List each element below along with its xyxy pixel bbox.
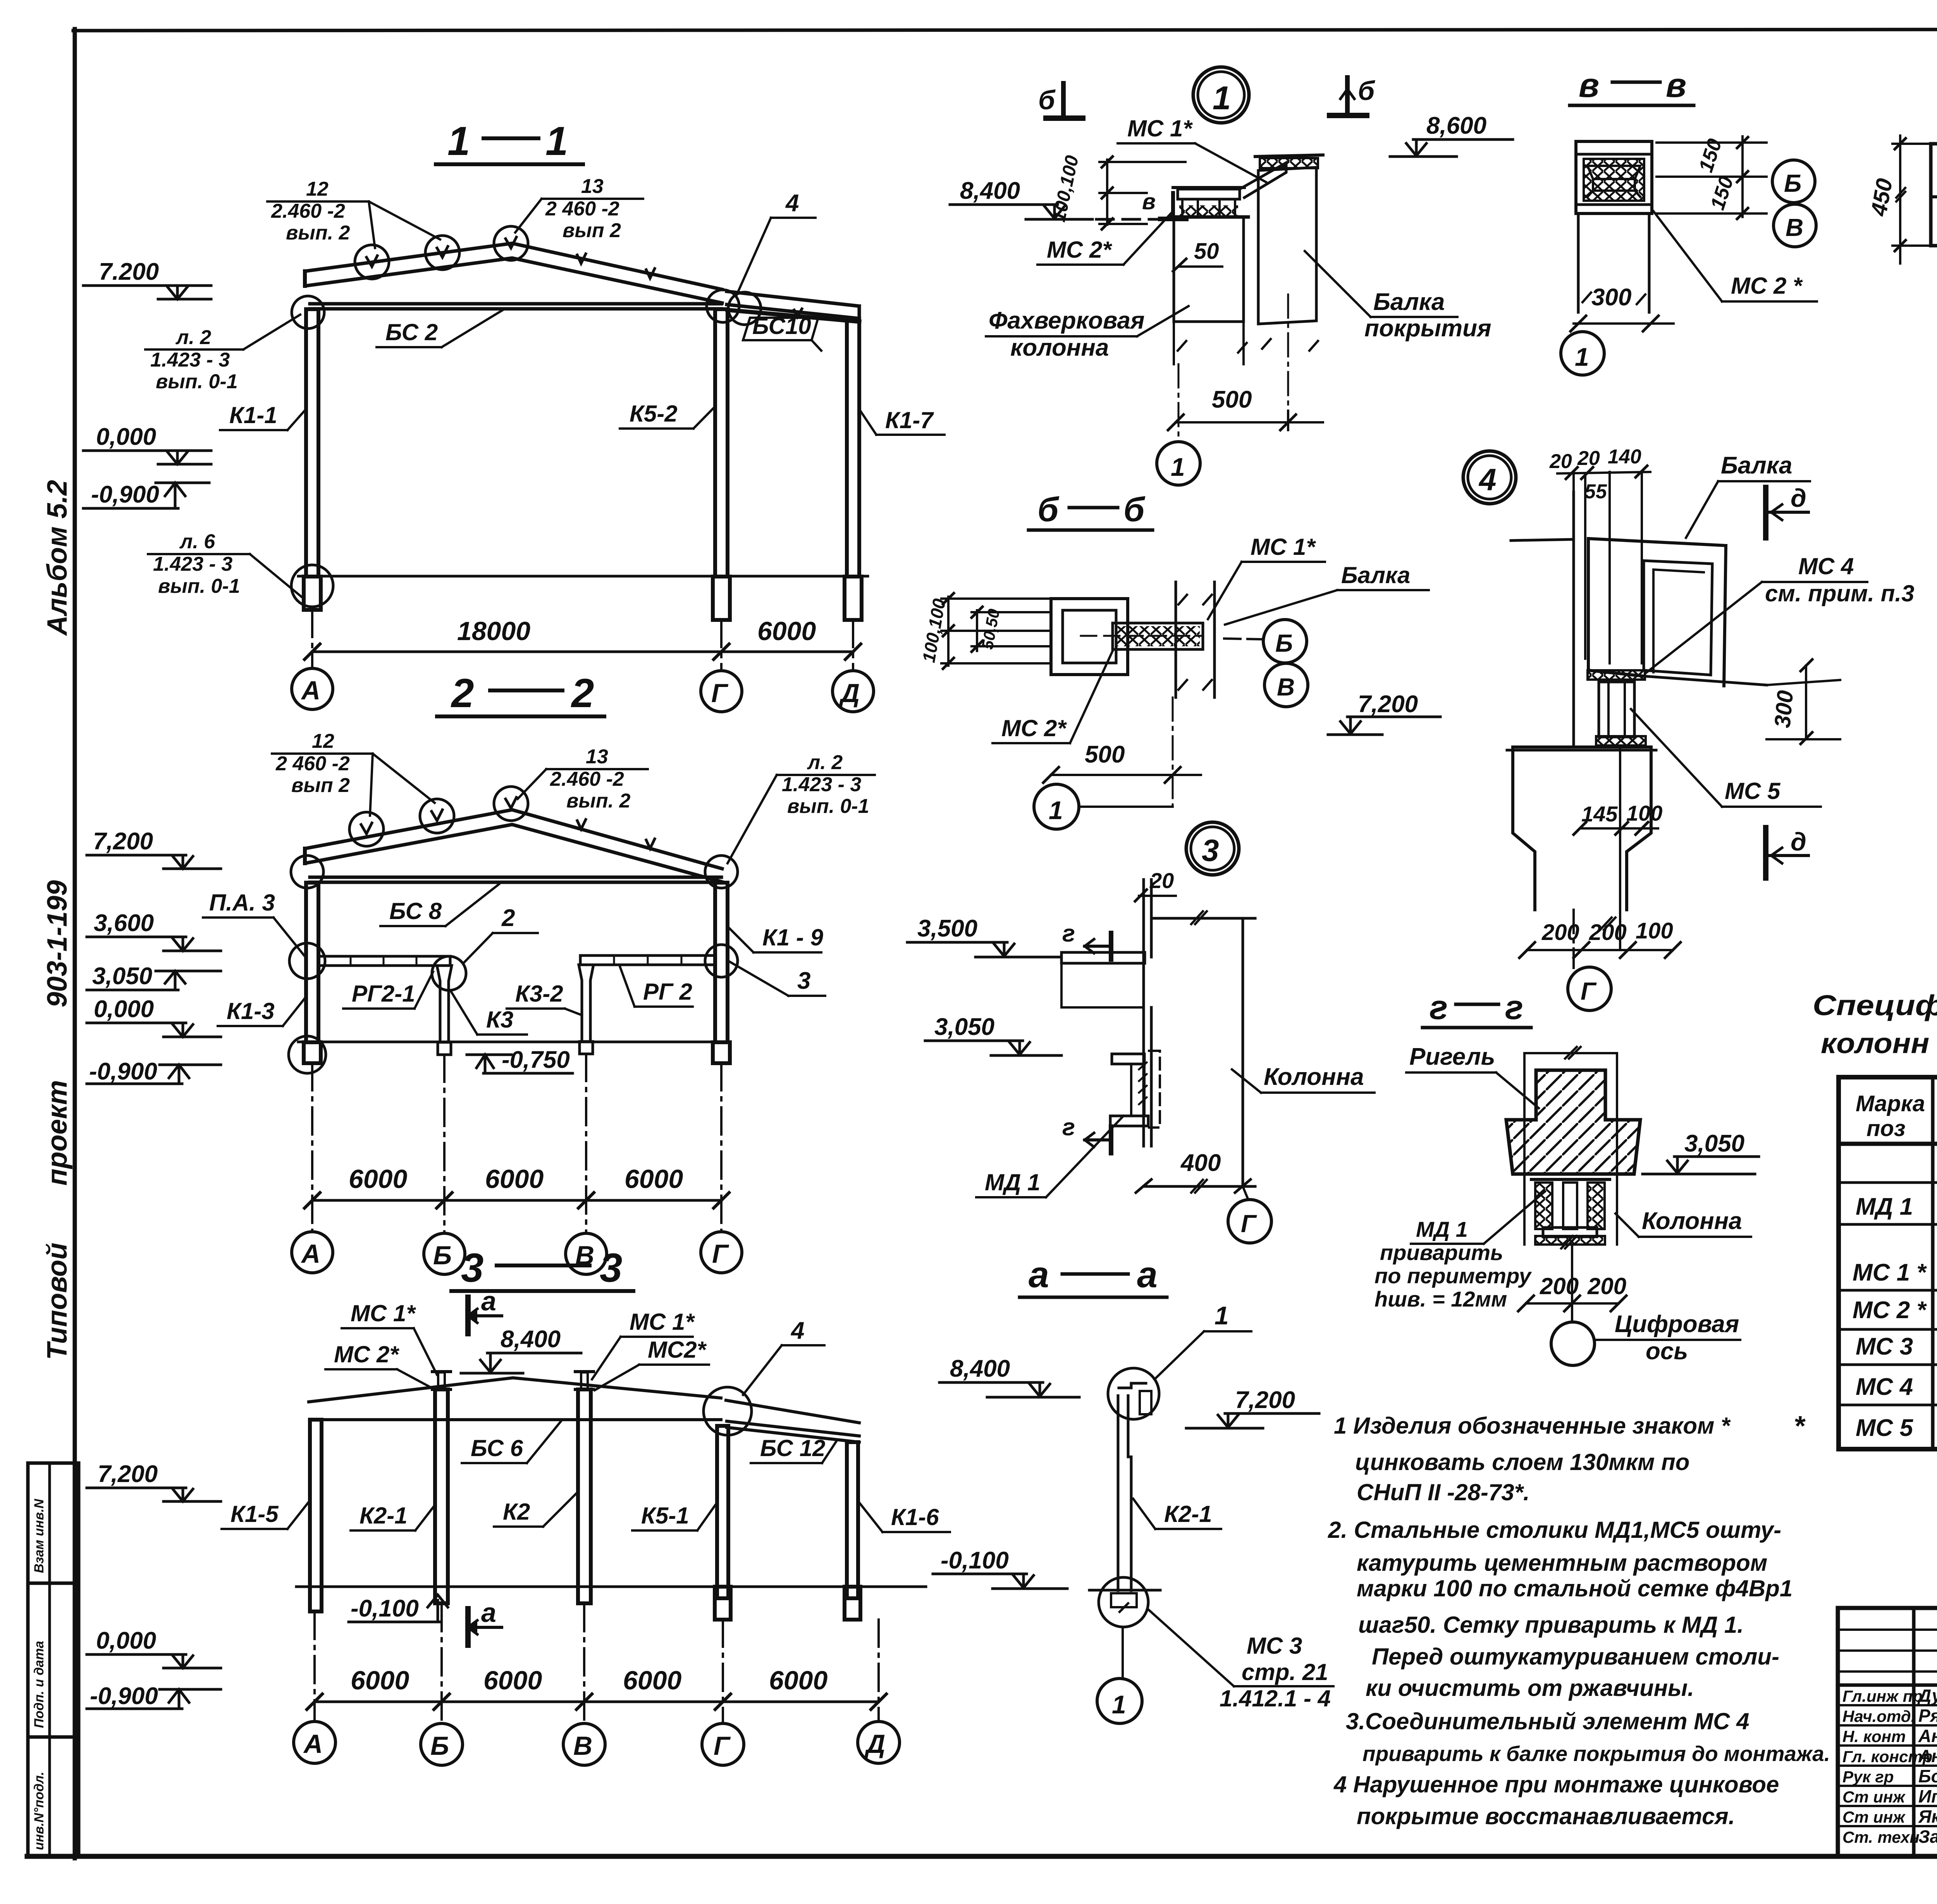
svg-text:К3-2: К3-2 <box>515 981 563 1007</box>
svg-text:3: 3 <box>797 967 810 994</box>
level mark 7,200 s22 <box>87 855 221 869</box>
svg-text:Фахверковая: Фахверковая <box>989 307 1145 334</box>
svg-text:в: в <box>1142 189 1156 214</box>
axis lines 1-1 <box>312 610 853 670</box>
mark и node4 <box>1600 918 1615 930</box>
level mark -0,100 s33 <box>349 1595 448 1622</box>
level mark 0,000 s33 <box>87 1654 221 1668</box>
svg-text:12: 12 <box>312 730 334 752</box>
level mark 7,200 s33 <box>87 1488 221 1501</box>
section 2-2 title <box>451 671 594 716</box>
svg-text:г: г <box>1062 1114 1075 1141</box>
vertical dims 100 100 node1 <box>1099 157 1185 229</box>
svg-text:1: 1 <box>1112 1690 1126 1719</box>
svg-text:МС 2*: МС 2* <box>1047 237 1112 263</box>
svg-text:Балка: Балка <box>1721 452 1792 479</box>
column K5-1 G <box>717 1426 728 1598</box>
axis circle B 2-2 <box>424 1233 465 1274</box>
svg-text:Балка: Балка <box>1373 289 1445 315</box>
svg-text:Цифровая: Цифровая <box>1615 1311 1739 1338</box>
dims 200 200 100 node4 <box>1541 918 1673 945</box>
d marker upper node4 <box>1766 487 1808 538</box>
svg-text:Замураева: Замураева <box>1918 1827 1937 1847</box>
svg-text:цинковать слоем 130мкм по: цинковать слоем 130мкм по <box>1355 1449 1689 1475</box>
spec table column lines <box>1931 1077 1935 1449</box>
rigel hatched T g-g <box>1506 1070 1640 1174</box>
svg-text:13: 13 <box>581 175 604 198</box>
svg-text:Б: Б <box>433 1241 452 1270</box>
level mark 3,050 g-g <box>1643 1157 1759 1174</box>
callout 12 s22 <box>275 730 350 797</box>
d marker lower node4 <box>1766 828 1808 878</box>
svg-text:колонна: колонна <box>1010 334 1109 361</box>
sig col lines <box>1912 1608 1916 1856</box>
svg-text:В: В <box>1277 673 1295 701</box>
svg-text:а: а <box>481 1598 496 1628</box>
svg-text:3,050: 3,050 <box>92 963 152 990</box>
svg-text:Колонна: Колонна <box>1642 1208 1742 1234</box>
fachwerk column head node1 <box>1169 163 1286 364</box>
roof joint V notches 2-2 <box>361 823 372 834</box>
roof slab band Г-Д 1-1 <box>727 291 859 318</box>
axis circle G node3 <box>1228 1200 1271 1243</box>
svg-text:2 460 -2: 2 460 -2 <box>545 198 619 220</box>
svg-text:МС 1*: МС 1* <box>630 1309 695 1335</box>
svg-text:вып. 0-1: вып. 0-1 <box>156 370 238 393</box>
b-b title <box>1037 490 1146 529</box>
svg-text:К1-3: К1-3 <box>227 998 275 1024</box>
level mark -0,900 s22 <box>87 1065 221 1084</box>
section marker b left <box>1046 83 1083 118</box>
wall lines node4 <box>1511 492 1574 747</box>
svg-text:2: 2 <box>501 905 515 931</box>
dim line 6000x4 3-3 <box>315 1701 879 1703</box>
svg-text:К3: К3 <box>486 1007 513 1033</box>
rigel side view node2 <box>1931 142 1937 246</box>
axis circle G node4 <box>1568 967 1611 1011</box>
axis circle D 1-1 <box>833 671 874 712</box>
bottom joint circle a-a <box>1099 1577 1148 1627</box>
svg-text:18000: 18000 <box>457 616 530 646</box>
label MS3 a-a <box>1220 1633 1331 1711</box>
node number 3 circle <box>1186 822 1239 875</box>
svg-text:МС 2*: МС 2* <box>334 1341 399 1367</box>
sig table outer <box>1838 1608 1937 1856</box>
svg-text:7,200: 7,200 <box>98 1461 158 1487</box>
dim line 6000x3 2-2 <box>312 1199 721 1202</box>
svg-text:а: а <box>481 1286 496 1316</box>
svg-text:Г: Г <box>1581 977 1597 1005</box>
svg-text:Андриевская: Андриевская <box>1918 1746 1937 1766</box>
svg-text:2.460 -2: 2.460 -2 <box>550 768 624 790</box>
svg-text:г: г <box>1062 920 1075 947</box>
axis circle G 1-1 <box>701 671 742 712</box>
svg-text:8,400: 8,400 <box>960 177 1020 204</box>
column K1-5 A <box>310 1420 322 1611</box>
joint circles 1-1 <box>292 296 324 329</box>
svg-text:Спецификация элементов к схе: Спецификация элементов к схемам располож… <box>1813 989 1937 1021</box>
svg-text:-0,100: -0,100 <box>941 1547 1009 1574</box>
axis circle V 2-2 <box>566 1233 607 1274</box>
svg-text:Думан: Думан <box>1917 1685 1937 1706</box>
svg-text:Гл.инж пр: Гл.инж пр <box>1842 1687 1923 1705</box>
svg-text:3,600: 3,600 <box>94 910 154 937</box>
svg-text:МС 2*: МС 2* <box>1001 715 1067 741</box>
svg-text:БС 8: БС 8 <box>389 898 442 924</box>
sig row lines top <box>1838 1629 1937 1631</box>
svg-text:П.А. 3: П.А. 3 <box>209 890 275 916</box>
svg-text:Нач.отд.: Нач.отд. <box>1842 1707 1915 1725</box>
svg-text:500: 500 <box>1085 741 1125 768</box>
svg-text:покрытие восстанавливается.: покрытие восстанавливается. <box>1357 1803 1735 1829</box>
svg-text:Марка: Марка <box>1856 1091 1925 1116</box>
svg-text:покрытия: покрытия <box>1364 315 1491 342</box>
svg-text:БС 12: БС 12 <box>760 1435 825 1461</box>
svg-text:1: 1 <box>545 119 568 164</box>
svg-text:В: В <box>1786 213 1803 241</box>
beam BC2 line <box>310 302 721 306</box>
svg-text:200: 200 <box>1587 1273 1626 1299</box>
level mark 3,050 s22 <box>87 971 221 990</box>
svg-text:Перед оштукатуриванием столи-: Перед оштукатуриванием столи- <box>1372 1644 1779 1670</box>
svg-text:Балка: Балка <box>1341 562 1410 588</box>
svg-text:Рябуха: Рябуха <box>1918 1706 1937 1726</box>
node 4 circle on G joint <box>704 1387 752 1435</box>
column K1-3 A <box>306 883 318 1042</box>
level mark 7,200 a-a <box>1186 1413 1319 1428</box>
callout 13 s22 <box>550 745 630 812</box>
svg-text:г: г <box>1505 988 1523 1026</box>
axis lines 2-2 <box>312 1054 721 1234</box>
axis circle 1 b-b <box>1034 784 1079 829</box>
platform slab node3 <box>1061 952 1145 963</box>
dim 450 node2 <box>1892 136 1937 263</box>
b-b left rotated dims 100,100 50,50 <box>941 593 1051 669</box>
v-v column below <box>1578 213 1649 312</box>
svg-text:Д: Д <box>864 1729 885 1759</box>
svg-text:Колонна: Колонна <box>1264 1064 1364 1090</box>
svg-text:6000: 6000 <box>624 1164 683 1194</box>
svg-text:д: д <box>1791 827 1806 856</box>
svg-text:МС 2 *: МС 2 * <box>1731 273 1803 299</box>
column K3 B <box>437 966 452 1042</box>
svg-text:1: 1 <box>1049 796 1063 825</box>
svg-text:МС2*: МС2* <box>648 1337 707 1363</box>
svg-text:катурить цементным раствором: катурить цементным раствором <box>1357 1550 1767 1576</box>
svg-text:СНиП II -28-73*.: СНиП II -28-73*. <box>1357 1479 1530 1505</box>
notch circles 1-1 <box>355 245 389 279</box>
svg-text:1 Изделия обозначенные знаком: 1 Изделия обозначенные знаком * <box>1334 1413 1731 1439</box>
level mark 8,400 s33 mid <box>461 1353 581 1373</box>
svg-text:шаг50. Сетку приварить к МД 1.: шаг50. Сетку приварить к МД 1. <box>1358 1612 1744 1638</box>
column K1-7 D <box>847 321 859 577</box>
spec table header line <box>1839 1142 1937 1146</box>
svg-text:МД 1: МД 1 <box>1416 1217 1468 1241</box>
svg-text:Г: Г <box>711 678 729 708</box>
svg-text:а: а <box>1137 1254 1158 1295</box>
svg-text:БС 2: БС 2 <box>385 319 438 345</box>
svg-text:-0,750: -0,750 <box>502 1047 570 1073</box>
dims 145 100 node4 <box>1581 801 1662 826</box>
level mark 8,400 a-a <box>939 1382 1079 1397</box>
svg-text:-0,900: -0,900 <box>91 481 159 508</box>
svg-text:вып. 0-1: вып. 0-1 <box>787 795 869 818</box>
svg-text:hшв. = 12мм: hшв. = 12мм <box>1374 1287 1507 1311</box>
beam BC8 line <box>310 876 721 879</box>
frame border bottom <box>27 1854 1937 1859</box>
level mark 7.200 <box>83 286 211 299</box>
svg-text:Ст инж: Ст инж <box>1842 1788 1906 1806</box>
MS5 stack node4 <box>1596 682 1646 745</box>
section 1-1 title <box>447 119 568 164</box>
svg-text:вып. 2: вып. 2 <box>286 222 350 244</box>
column K1-9 G <box>715 883 728 1042</box>
svg-text:Подп. и дата: Подп. и дата <box>32 1641 46 1728</box>
svg-text:7.200: 7.200 <box>99 258 159 285</box>
svg-text:РГ2-1: РГ2-1 <box>352 981 415 1007</box>
svg-text:4 Нарушенное при монтаже цинко: 4 Нарушенное при монтаже цинковое <box>1333 1771 1779 1797</box>
svg-text:см. прим. п.3: см. прим. п.3 <box>1765 580 1914 606</box>
svg-text:МС 1*: МС 1* <box>1251 534 1316 560</box>
svg-text:МД 1: МД 1 <box>985 1169 1040 1195</box>
svg-text:1: 1 <box>1214 1301 1229 1330</box>
MS4 weld plate node4 <box>1588 670 1645 680</box>
svg-text:К2-1: К2-1 <box>360 1503 408 1529</box>
svg-text:в: в <box>1666 66 1686 104</box>
svg-text:проект: проект <box>42 1080 73 1186</box>
svg-text:7,200: 7,200 <box>1235 1387 1295 1413</box>
svg-text:инв.N°подл.: инв.N°подл. <box>32 1771 46 1850</box>
svg-text:8,400: 8,400 <box>950 1355 1010 1382</box>
svg-text:ось: ось <box>1646 1338 1688 1365</box>
svg-text:2. Стальные столики МД1,МС5 ош: 2. Стальные столики МД1,МС5 ошту- <box>1328 1517 1781 1543</box>
level mark -0,100 a-a <box>933 1574 1067 1589</box>
beam edges b-b <box>1175 582 1177 697</box>
dims 150 150 v-v <box>1657 136 1767 219</box>
svg-text:Андриевская: Андриевская <box>1918 1726 1937 1746</box>
axis circle g-g <box>1551 1322 1595 1365</box>
svg-text:В: В <box>573 1731 592 1761</box>
level mark 3,500 node3 <box>907 942 1061 957</box>
svg-text:л. 2: л. 2 <box>175 326 211 349</box>
g marker upper node3 <box>1085 933 1112 959</box>
svg-text:МС 5: МС 5 <box>1856 1415 1914 1441</box>
svg-text:колонн и ригелей, балок покрыт: колонн и ригелей, балок покрытия на лист… <box>1821 1027 1937 1059</box>
svg-text:Яковчик: Яковчик <box>1918 1806 1937 1827</box>
svg-text:20: 20 <box>1577 447 1600 470</box>
axis circle A 1-1 <box>292 668 333 709</box>
svg-text:1.423 - 3: 1.423 - 3 <box>782 773 861 796</box>
roof line G-D 3-3 <box>726 1400 859 1423</box>
svg-text:8,400: 8,400 <box>501 1326 561 1353</box>
level mark 0.000 <box>83 451 211 464</box>
ground line 2-2 <box>298 1041 728 1043</box>
level mark 7,200 b-b <box>1328 717 1440 735</box>
svg-text:МС 1*: МС 1* <box>1127 115 1193 141</box>
svg-text:А: А <box>303 1729 323 1759</box>
svg-text:300: 300 <box>1591 284 1631 311</box>
svg-text:б: б <box>1037 490 1060 529</box>
svg-text:К2-1: К2-1 <box>1164 1501 1212 1527</box>
svg-text:л. 2: л. 2 <box>807 751 843 774</box>
svg-text:*: * <box>1794 1411 1806 1442</box>
beam BC10 line <box>728 310 859 322</box>
axis circle D 3-3 <box>858 1722 900 1763</box>
svg-text:6000: 6000 <box>757 616 816 646</box>
svg-text:Взам инв.N: Взам инв.N <box>32 1498 46 1573</box>
svg-text:7,200: 7,200 <box>93 828 153 855</box>
svg-text:К5-1: К5-1 <box>641 1503 689 1529</box>
frame border top <box>73 29 1937 31</box>
level mark 8,400 node1 <box>950 205 1172 219</box>
svg-text:6000: 6000 <box>483 1666 542 1695</box>
node number 4 circle <box>1463 451 1516 504</box>
svg-text:-0,900: -0,900 <box>89 1058 157 1085</box>
svg-text:Б: Б <box>1275 629 1293 657</box>
svg-text:Ипполитова: Ипполитова <box>1918 1786 1937 1806</box>
axis circle A 2-2 <box>292 1232 333 1273</box>
svg-text:по периметру: по периметру <box>1374 1264 1532 1288</box>
svg-text:2: 2 <box>451 671 474 716</box>
svg-text:903-1-199: 903-1-199 <box>42 880 73 1007</box>
callout L6 1.423-3 vyp 0-1 <box>153 530 240 597</box>
axis circle G 3-3 <box>702 1723 744 1765</box>
svg-text:д: д <box>1791 484 1806 512</box>
beam BC6 line <box>310 1418 721 1421</box>
frame border left <box>73 29 77 1858</box>
column K3-2 V <box>579 965 593 1042</box>
svg-text:Бобрук: Бобрук <box>1918 1766 1937 1786</box>
axis circle B 3-3 <box>421 1723 463 1765</box>
axis circles B V v-v <box>1772 160 1815 203</box>
callout 13 / 2 460-2 / vyp 2 <box>545 175 621 242</box>
svg-text:в: в <box>1579 66 1599 104</box>
svg-text:л. 6: л. 6 <box>179 530 215 553</box>
axis circle G 2-2 <box>701 1232 742 1273</box>
v-v title <box>1579 66 1686 104</box>
MS1 angled connector <box>1240 163 1286 198</box>
axis line and circle 1 a-a <box>1122 1627 1124 1678</box>
svg-text:марки 100 по стальной сетке ф4: марки 100 по стальной сетке ф4Вр1 <box>1357 1575 1792 1601</box>
svg-text:Типовой: Типовой <box>42 1243 73 1360</box>
svg-text:Г: Г <box>1241 1210 1257 1238</box>
svg-text:ки очистить от ржавчины.: ки очистить от ржавчины. <box>1366 1675 1694 1701</box>
svg-text:1: 1 <box>1171 453 1185 481</box>
svg-text:А: А <box>301 1239 320 1269</box>
svg-text:3,050: 3,050 <box>934 1014 994 1040</box>
svg-text:б: б <box>1358 76 1375 106</box>
svg-text:6000: 6000 <box>349 1164 407 1194</box>
svg-text:300: 300 <box>1770 689 1798 729</box>
column K2 V with MS posts <box>578 1389 591 1603</box>
lower dim и marks <box>1144 1185 1255 1188</box>
svg-text:-0,100: -0,100 <box>351 1595 419 1622</box>
svg-text:0,000: 0,000 <box>96 423 156 450</box>
spec table outer <box>1839 1077 1937 1449</box>
svg-text:55: 55 <box>1584 480 1607 503</box>
spec table row lines <box>1839 1181 1937 1184</box>
svg-text:4: 4 <box>785 190 799 217</box>
svg-text:4: 4 <box>790 1317 804 1344</box>
MD1 bracket g-g <box>1531 1179 1610 1245</box>
b-b plan: column square <box>1051 582 1214 697</box>
MD1 bracket node3 <box>1110 1051 1160 1128</box>
column K1-6 D <box>847 1442 858 1598</box>
svg-text:400: 400 <box>1180 1150 1221 1176</box>
g-g title <box>1430 988 1523 1026</box>
svg-text:2: 2 <box>571 671 594 716</box>
svg-text:приварить к балке покрытия до: приварить к балке покрытия до монтажа. <box>1362 1742 1830 1766</box>
level mark -0.900 <box>83 483 209 508</box>
svg-text:12: 12 <box>306 178 329 200</box>
column lines node3 <box>1061 880 1255 1193</box>
axis circle A 3-3 <box>294 1722 335 1763</box>
dim 300 node4 <box>1767 659 1840 744</box>
callout L2 1.423-3 vyp 0-1 <box>150 326 238 393</box>
label MD1 multiline g-g <box>1374 1217 1532 1311</box>
top dim line node3 <box>1151 917 1255 920</box>
dim line 18000/6000 <box>312 651 853 653</box>
svg-text:МС 4: МС 4 <box>1798 553 1854 579</box>
svg-text:3: 3 <box>1202 833 1219 868</box>
roof joint V notches 1-1 <box>366 256 377 267</box>
MS2 plate on column top <box>1169 215 1248 219</box>
column K5-2 G <box>715 309 728 577</box>
column top node4 <box>1507 747 1656 910</box>
svg-text:1: 1 <box>447 119 470 164</box>
svg-text:К1-5: К1-5 <box>231 1501 279 1527</box>
node number 1 circle <box>1193 67 1249 123</box>
svg-text:Ригель: Ригель <box>1409 1043 1495 1070</box>
svg-text:МС 1 *: МС 1 * <box>1853 1259 1927 1286</box>
svg-text:100: 100 <box>1626 801 1662 825</box>
svg-text:МД 1: МД 1 <box>1856 1193 1913 1220</box>
svg-text:К1-6: К1-6 <box>891 1504 939 1530</box>
svg-text:г: г <box>1430 988 1448 1026</box>
svg-text:вып 2: вып 2 <box>291 774 350 797</box>
svg-text:Г: Г <box>714 1731 731 1761</box>
svg-text:РГ 2: РГ 2 <box>643 979 692 1005</box>
ground line 3-3 <box>296 1586 926 1588</box>
axis circle 1 node1 <box>1157 442 1200 485</box>
level mark 8,600 <box>1390 139 1513 157</box>
column K1-1 A <box>306 309 318 577</box>
svg-text:3,500: 3,500 <box>917 915 977 942</box>
svg-text:6000: 6000 <box>485 1164 544 1194</box>
svg-text:1: 1 <box>1575 343 1589 371</box>
svg-text:6000: 6000 <box>769 1666 827 1695</box>
platform slab RG2 <box>580 955 715 965</box>
svg-text:3: 3 <box>600 1245 622 1291</box>
MARGIN <box>28 1463 79 1856</box>
column outline lines g-g <box>1524 1047 1617 1248</box>
level mark 3,050 node3 <box>925 1041 1061 1055</box>
axis circles B V b-b <box>1263 620 1307 663</box>
svg-text:МС 3: МС 3 <box>1856 1333 1913 1360</box>
svg-text:4: 4 <box>1478 462 1497 497</box>
level mark -0,900 s33 <box>87 1689 221 1709</box>
MS2 plate bar <box>1113 623 1203 649</box>
svg-text:Д: Д <box>839 678 860 708</box>
section marker b right <box>1330 77 1367 115</box>
joint circles 2-2 <box>291 856 323 888</box>
svg-text:МС 1*: МС 1* <box>351 1300 416 1326</box>
svg-text:0,000: 0,000 <box>96 1627 156 1654</box>
svg-text:Ст инж: Ст инж <box>1842 1808 1906 1826</box>
axis circle 1 v-v <box>1561 332 1604 375</box>
svg-text:К5-2: К5-2 <box>630 401 678 427</box>
svg-text:б: б <box>1123 490 1146 529</box>
